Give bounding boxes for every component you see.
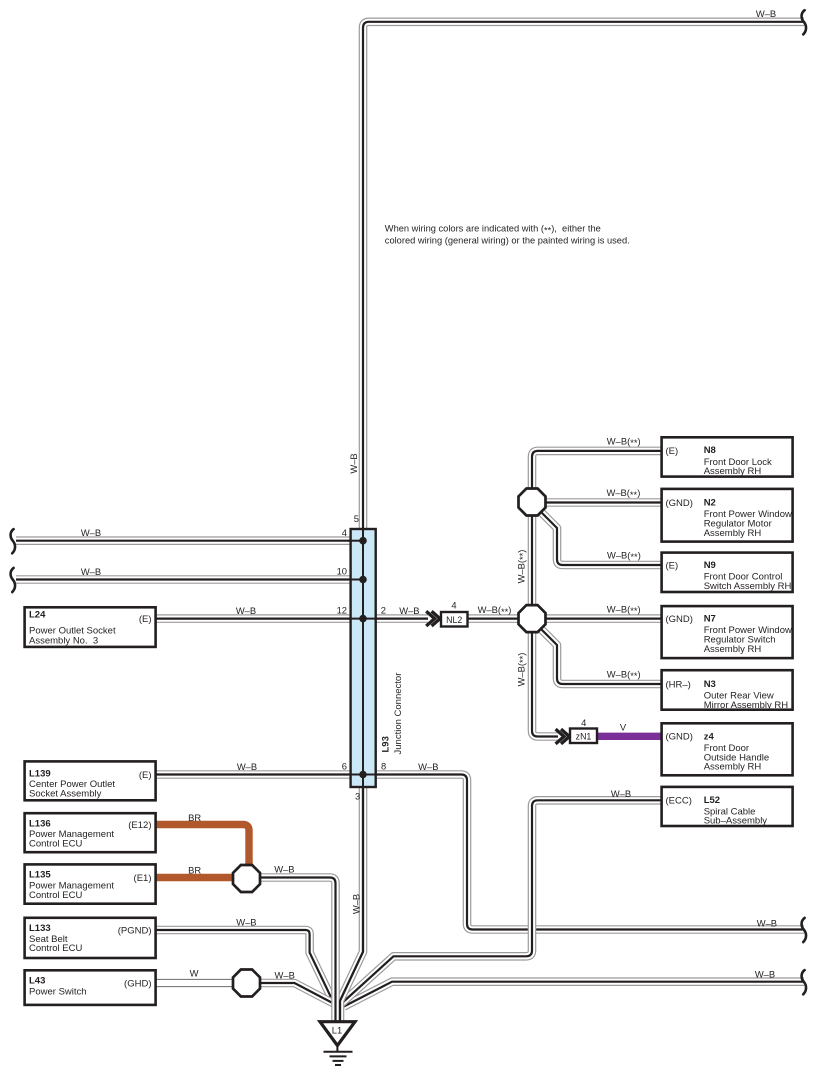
connector chevron NL2 [426,611,440,626]
continuation squiggle top right [802,10,806,34]
svg-text:(HR–): (HR–) [666,679,691,690]
wire W-B row to pin 4 from left edge [16,536,350,545]
svg-text:Socket Assembly: Socket Assembly [29,789,102,800]
svg-text:(GND): (GND) [666,614,693,625]
svg-text:(E): (E) [139,770,152,781]
component box L135 Power Management Control ECU [25,864,156,903]
wire W-B(**) from NL2 to splice octagon [468,614,520,623]
wire BR from L135 (E1) to splice octagon [156,874,234,881]
svg-text:Power Switch: Power Switch [29,987,87,998]
svg-text:2: 2 [381,605,386,616]
svg-text:(E): (E) [666,446,679,457]
continuation squiggle right W-B row y982 [802,970,806,994]
wire W-B(**) from top octagon diagonally down to N9 (E) [541,512,665,566]
svg-text:W–B(**): W–B(**) [478,604,512,617]
splice octagon L43 [233,969,260,996]
wire pin 10 inside connector [348,579,363,581]
svg-text:Control ECU: Control ECU [29,890,82,901]
wire W-B from L93 pin 3 down to ground fan [340,788,363,1022]
wire W-B from L52 (ECC) left and down to ground fan [342,800,665,1003]
svg-text:NL2: NL2 [446,615,462,625]
svg-text:(ECC): (ECC) [666,795,692,806]
svg-text:N8: N8 [704,445,716,456]
svg-text:Control ECU: Control ECU [29,839,82,850]
wire black centers at ground bundle [340,788,363,1022]
svg-text:W–B: W–B [236,916,256,927]
continuation squiggle right W-B row y930 [802,918,806,942]
svg-text:(E): (E) [666,560,679,571]
splice octagon top [519,489,546,516]
component box L43 Power Switch [25,970,156,1005]
wire pin 4 inside connector [348,540,363,542]
component box L52 Spiral Cable Sub-Assembly [662,787,793,827]
component box N3 Outer Rear View Mirror Assembly RH [662,670,793,711]
svg-text:(E): (E) [139,614,152,625]
svg-text:(PGND): (PGND) [118,925,152,936]
connector chevron zN1 [556,729,570,744]
svg-text:N9: N9 [704,560,716,571]
svg-text:Mirror Assembly RH: Mirror Assembly RH [704,700,789,711]
component box L139 Center Power Outlet Socket Assembly [25,761,156,800]
svg-text:W–B(**): W–B(**) [606,487,640,500]
svg-text:4: 4 [451,599,456,610]
svg-text:(E12): (E12) [128,820,151,831]
wire W-B from L133 (PGND) down to ground fan [156,930,334,1003]
junction dot pin 6 [359,771,367,779]
ground symbol L1 triangle [320,1022,355,1046]
svg-text:L133: L133 [29,923,51,934]
svg-text:N3: N3 [704,679,716,690]
wire W-B(**) from middle octagon diagonally down to N3 (HR-) [541,629,665,685]
svg-text:L136: L136 [29,818,51,829]
connector box zN1 [570,729,597,744]
svg-text:8: 8 [381,761,386,772]
svg-text:10: 10 [337,566,347,577]
wire W-B(**) from top octagon right to N2 (GND) [545,498,665,507]
svg-text:N2: N2 [704,498,716,509]
svg-text:W–B(**): W–B(**) [515,550,528,584]
svg-text:W–B(**): W–B(**) [607,550,641,563]
svg-text:W–B: W–B [351,894,362,914]
svg-text:Control ECU: Control ECU [29,943,82,954]
junction dot pin 4 [359,537,367,545]
splice octagon L135/L136 [233,865,260,892]
svg-text:BR: BR [188,812,201,823]
svg-text:4: 4 [342,527,347,538]
svg-text:W–B: W–B [237,761,257,772]
svg-text:W–B: W–B [755,968,775,979]
svg-text:W–B: W–B [348,453,359,473]
ground stub [336,1044,338,1052]
component box N7 Front Power Window Regulator Switch Assembly RH [662,606,793,658]
wire W from L43 (GHD) to splice octagon [156,979,234,987]
svg-text:3: 3 [355,791,360,802]
wire W-B(**) riser between splice octagons [528,515,537,607]
svg-text:colored wiring (general wiring: colored wiring (general wiring) or the p… [385,236,630,246]
wire pin 6 to pin 8 inside connector [348,774,377,776]
wire V purple from zN1 to z4 (GND) [595,733,664,740]
continuation squiggle left row pin10 [11,568,15,592]
svg-text:L43: L43 [29,975,45,986]
wire W-B from L24 (E) to pin 12 [156,614,350,623]
svg-text:W–B: W–B [418,761,438,772]
svg-text:W–B: W–B [236,605,256,616]
wire W-B row to pin 10 from left edge [16,575,350,584]
svg-text:BR: BR [188,864,201,875]
svg-text:W–B: W–B [399,605,419,616]
svg-text:W–B: W–B [81,566,101,577]
svg-text:(GND): (GND) [666,498,693,509]
svg-text:Assembly RH: Assembly RH [704,528,762,539]
wire W-B(**) from top octagon up and right to N8 (E) [532,451,664,490]
svg-text:When wiring colors are indicat: When wiring colors are indicated with (*… [385,224,601,236]
wire W-B lower right to page edge from ground fan [344,982,804,1007]
svg-text:W–B(**): W–B(**) [607,435,641,448]
connector box NL2 [441,612,468,627]
svg-text:12: 12 [337,605,347,616]
svg-text:(GHD): (GHD) [124,978,151,989]
ground hatch lines [324,1052,353,1065]
wire W-B from pin 2 to connector NL2 [376,614,428,623]
wire W-B from L43 splice octagon to ground fan [261,983,335,1004]
svg-text:L93: L93 [381,736,392,752]
wire W-B(**) from middle octagon right to N7 (GND) [545,614,665,623]
svg-text:L135: L135 [29,870,51,881]
svg-text:Assembly RH: Assembly RH [704,466,762,477]
svg-text:W–B: W–B [611,788,631,799]
wire bus inside junction connector [362,528,364,788]
svg-text:5: 5 [354,513,359,524]
junction dot pin 10 [359,576,367,584]
svg-text:W–B(**): W–B(**) [607,603,641,616]
splice octagon middle [519,605,546,632]
svg-text:Sub–Assembly: Sub–Assembly [704,815,768,826]
component box L24 Power Outlet Socket Assembly No. 3 [25,607,156,647]
svg-text:Assembly RH: Assembly RH [704,644,762,655]
svg-text:W–B(**): W–B(**) [607,669,641,682]
svg-text:W–B: W–B [275,970,295,981]
svg-text:W–B: W–B [756,8,776,19]
svg-text:W–B: W–B [81,527,101,538]
component box L136 Power Management Control ECU [25,813,156,852]
continuation squiggle left row pin4 [11,529,15,553]
svg-text:W: W [190,967,199,978]
svg-text:4: 4 [581,717,586,728]
svg-text:z4: z4 [704,731,715,742]
svg-text:L52: L52 [704,795,720,806]
junction dot pin 12 [359,615,367,623]
svg-text:W–B: W–B [274,864,294,875]
svg-text:W–B(**): W–B(**) [515,653,528,687]
wire W-B top bus: vertical riser x=363 up to y=22 then right to page edge [363,22,804,528]
svg-text:W–B: W–B [757,917,777,928]
wire pin 12 to pin 2 inside connector [348,618,377,620]
wire W-B(**) from middle octagon down to connector zN1 [532,631,558,737]
svg-text:L1: L1 [332,1025,342,1036]
svg-text:(E1): (E1) [134,873,152,884]
svg-text:N7: N7 [704,614,716,625]
svg-text:(GND): (GND) [666,732,693,743]
component box N2 Front Power Window Regulator Motor Assembly RH [662,489,793,542]
junction connector L93 blue body [351,529,376,787]
svg-text:L139: L139 [29,768,51,779]
svg-text:Switch Assembly RH: Switch Assembly RH [704,581,792,592]
svg-text:zN1: zN1 [576,731,592,741]
component box L133 Seat Belt Control ECU [25,918,156,958]
wire W-B from L139 (E) through pins 6/8 then down and right to page edge [156,775,804,930]
component box N9 Front Door Control Switch Assembly RH [662,553,793,592]
svg-text:Assembly No. 3: Assembly No. 3 [29,635,98,646]
component box z4 Front Door Outside Handle Assembly RH [662,723,793,775]
svg-text:Assembly RH: Assembly RH [704,762,762,773]
wire BR from L136 (E12) to splice octagon [156,825,249,866]
svg-text:Junction Connector: Junction Connector [393,673,404,755]
component box N8 Front Door Lock Assembly RH [662,437,793,477]
wire W-B from L135/L136 octagon down into ground L1 [261,878,336,1022]
svg-text:V: V [620,722,627,733]
svg-text:6: 6 [342,761,347,772]
svg-text:L24: L24 [29,610,46,621]
